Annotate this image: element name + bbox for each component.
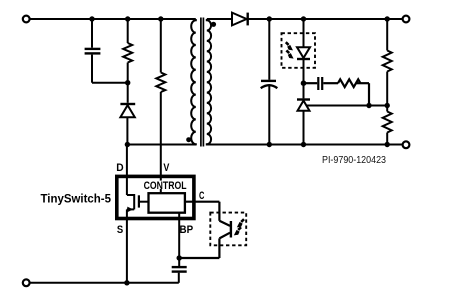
svg-text:S: S — [117, 224, 123, 236]
svg-text:TinySwitch-5: TinySwitch-5 — [41, 192, 112, 206]
svg-text:BP: BP — [180, 224, 194, 236]
svg-text:V: V — [163, 162, 170, 174]
svg-text:C: C — [199, 190, 204, 202]
svg-text:PI-9790-120423: PI-9790-120423 — [322, 154, 386, 166]
svg-text:CONTROL: CONTROL — [144, 180, 187, 192]
svg-text:D: D — [116, 162, 123, 174]
